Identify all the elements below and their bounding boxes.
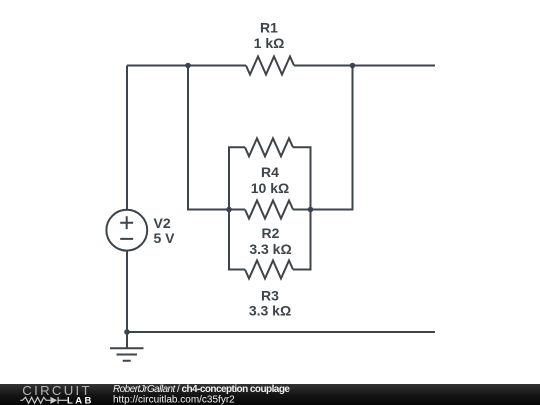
node [226, 207, 232, 213]
svg-text:R4: R4 [261, 164, 279, 180]
svg-text:http://circuitlab.com/c35fyr2: http://circuitlab.com/c35fyr2 [113, 394, 235, 405]
node [350, 63, 356, 69]
svg-text:R3: R3 [261, 287, 279, 303]
resistor R4 [245, 138, 293, 156]
svg-text:3.3 kΩ: 3.3 kΩ [249, 241, 291, 257]
wire [311, 66, 353, 210]
svg-text:LAB: LAB [67, 395, 94, 405]
svg-text:1 kΩ: 1 kΩ [254, 35, 285, 51]
logo waveform and diode [20, 397, 67, 404]
wire [126, 250, 128, 332]
wire [293, 209, 311, 211]
svg-text:V2: V2 [154, 215, 171, 231]
svg-text:3.3 kΩ: 3.3 kΩ [249, 302, 291, 318]
svg-text:10 kΩ: 10 kΩ [251, 180, 289, 196]
svg-text:R1: R1 [260, 19, 278, 35]
voltage source V2 [106, 210, 147, 251]
node [308, 207, 314, 213]
svg-text:5 V: 5 V [154, 230, 176, 246]
wire [229, 210, 245, 270]
wire [229, 209, 245, 211]
node [124, 329, 130, 335]
wire [229, 147, 245, 209]
resistor R3 [245, 261, 293, 279]
ground [110, 332, 144, 361]
footer bar [0, 384, 540, 405]
wire [293, 210, 311, 270]
wire [188, 66, 229, 210]
node [185, 63, 191, 69]
svg-text:R2: R2 [262, 225, 280, 241]
wire [293, 147, 311, 209]
resistor R2 [245, 201, 293, 219]
wire [126, 66, 128, 211]
wire [294, 65, 435, 67]
wire [127, 331, 435, 333]
wire [127, 65, 246, 67]
resistor R1 [246, 57, 294, 75]
